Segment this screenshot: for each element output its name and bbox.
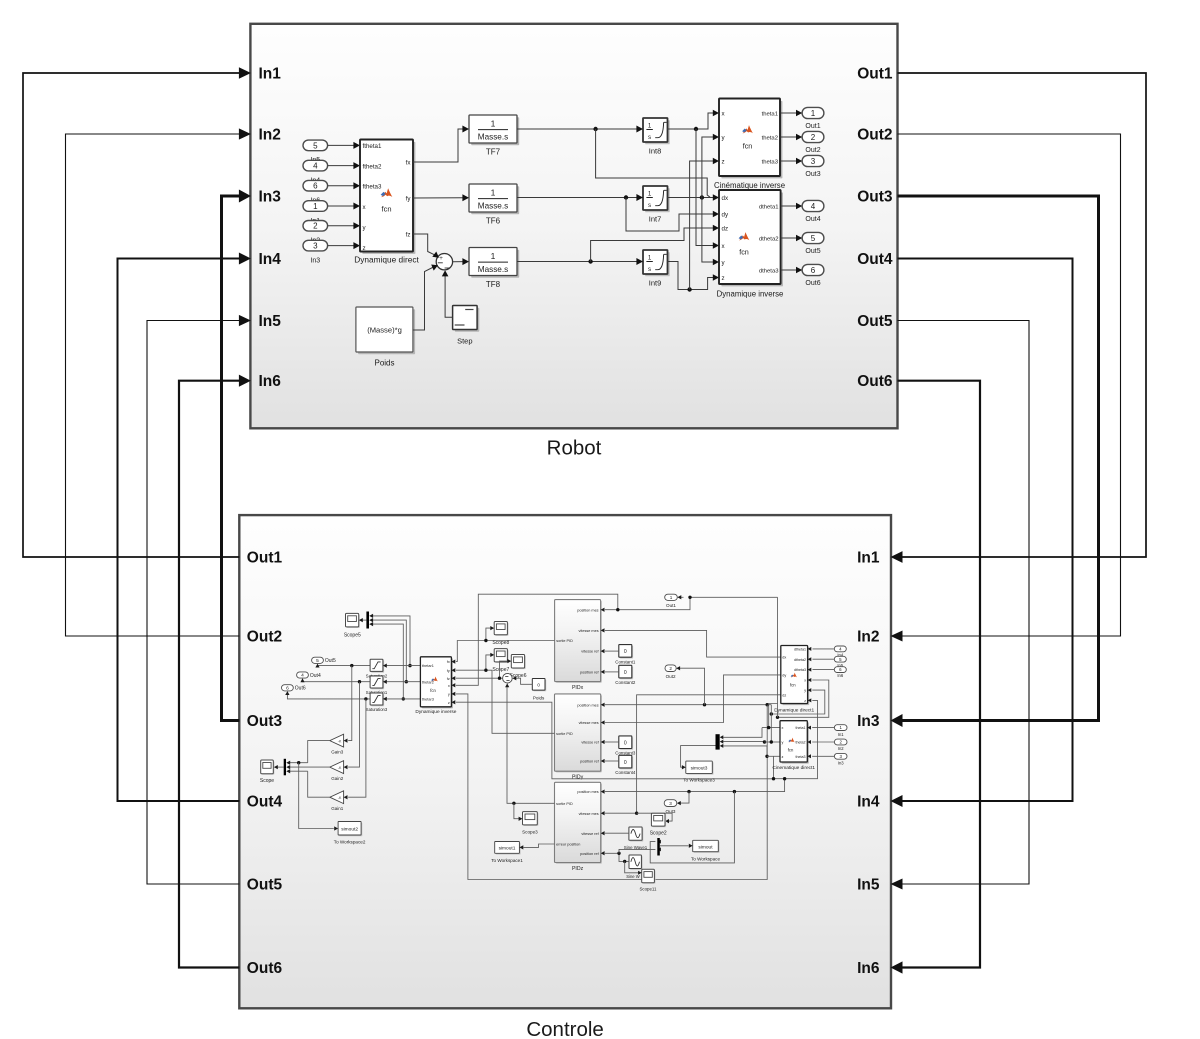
wire TF6 to Int7: [517, 197, 638, 199]
svg-text:fcn: fcn: [788, 748, 794, 753]
svg-text:To Workspace1: To Workspace1: [491, 858, 523, 863]
svg-text:In5: In5: [259, 313, 282, 330]
sine source block Sine Wave: [630, 856, 642, 870]
svg-text:In3: In3: [310, 257, 320, 264]
svg-text:position mes: position mes: [577, 703, 598, 707]
wire Robot Out4 to Controle In4: [898, 259, 1073, 802]
svg-text:Out2: Out2: [247, 629, 282, 646]
junction bottom-route tap: [766, 703, 769, 706]
junction Out3 tap: [687, 790, 690, 793]
svg-text:ftheta1: ftheta1: [363, 143, 382, 150]
wire to Out2: [678, 668, 704, 705]
wire inport 1 to Dynamique direct: [328, 205, 355, 207]
svg-text:dy: dy: [722, 211, 729, 218]
constant block Constant3: [620, 737, 633, 750]
wire TF8 to Int9: [517, 261, 638, 263]
wire Poids to sum S2: [516, 678, 533, 684]
svg-text:In6: In6: [857, 960, 880, 977]
svg-text:+: +: [439, 255, 443, 262]
svg-text:4: 4: [811, 202, 816, 211]
wire to simout2: [299, 763, 334, 829]
svg-text:Out4: Out4: [310, 673, 321, 679]
fcn block Dynamique direct1: [782, 647, 809, 705]
subsystem block PIDx: [556, 601, 602, 683]
svg-text:6: 6: [313, 182, 318, 191]
wire PIDz sortie to sum S2: [507, 686, 555, 804]
svg-text:6: 6: [811, 266, 816, 275]
svg-text:simout3: simout3: [691, 766, 708, 772]
svg-text:Out5: Out5: [857, 313, 893, 330]
svg-text:ftheta3: ftheta3: [363, 183, 382, 190]
svg-text:In2: In2: [857, 629, 879, 646]
svg-text:Dynamique inverse: Dynamique inverse: [415, 709, 456, 715]
svg-text:dtheta3: dtheta3: [759, 268, 779, 274]
svg-text:To Workspace: To Workspace: [691, 857, 720, 862]
wire Controle Out3 to Robot In3: [222, 196, 242, 721]
svg-text:1: 1: [648, 191, 652, 198]
wire fz to sum: [413, 234, 435, 255]
junction Scope3 tap: [512, 802, 515, 805]
wire Sine Wave to Scope11: [625, 861, 639, 872]
constant block Constant2: [620, 667, 633, 680]
wire Controle Out6 to Robot In6: [179, 381, 241, 968]
wire TF7 to Int8: [517, 128, 638, 130]
svg-text:Poids: Poids: [374, 359, 394, 368]
wire inport 2 to Cinematique direct1: [812, 741, 834, 743]
junction y riser tap: [770, 712, 773, 715]
wire Gain1 route into Mux2: [289, 770, 308, 772]
junction fz taps: [498, 677, 501, 680]
svg-text:Out5: Out5: [325, 658, 336, 664]
svg-text:Out6: Out6: [247, 960, 283, 977]
scope block Scope11: [643, 870, 656, 884]
svg-text:simout1: simout1: [499, 846, 516, 852]
wire to outport 5: [781, 237, 797, 239]
svg-text:theta3: theta3: [796, 755, 806, 759]
svg-text:ftheta2: ftheta2: [363, 163, 382, 170]
wire Controle Out1 to Robot In1: [23, 73, 241, 557]
wire fx to TF7: [413, 129, 464, 162]
svg-text:TF7: TF7: [486, 148, 501, 157]
wire y position to PIDy position mes: [605, 704, 771, 706]
svg-text:Out6: Out6: [295, 686, 306, 692]
wire Robot Out2 to Controle In2: [898, 134, 1121, 636]
svg-text:5: 5: [811, 234, 816, 243]
svg-text:In2: In2: [259, 127, 281, 144]
inport oval 2 (In2) Controle: [834, 739, 847, 745]
wire to outport 3: [781, 160, 797, 162]
wire TF8 branch to dz: [591, 228, 714, 262]
svg-text:Out6: Out6: [805, 280, 820, 287]
wire Controle Out5 to Robot In5: [147, 321, 241, 885]
svg-text:Gain3: Gain3: [331, 750, 344, 755]
wire Mux3 to simout: [660, 845, 689, 847]
wire TF6 branch to dy: [626, 198, 714, 232]
constant block Poids (Masse)*g: [358, 309, 415, 354]
wire dz tap to Scope2: [637, 813, 673, 821]
junction TF8 out: [588, 259, 592, 263]
wire Gain3 route into Mux2: [289, 762, 308, 764]
svg-text:dx: dx: [722, 195, 729, 202]
svg-text:Out3: Out3: [857, 189, 893, 206]
wire thetar3 tap to Mux1: [373, 624, 404, 699]
svg-text:Dynamique direct1: Dynamique direct1: [774, 708, 814, 714]
wire dz to PIDz vitesse mes: [605, 695, 781, 813]
svg-text:sortie PID: sortie PID: [556, 802, 573, 806]
svg-text:-K: -K: [338, 766, 342, 770]
outport oval 1 (Out1) Robot: [802, 107, 824, 118]
svg-text:dy: dy: [782, 674, 786, 678]
svg-text:Out6: Out6: [857, 373, 893, 390]
svg-text:4: 4: [313, 162, 318, 171]
wire Constant3 to PID: [605, 741, 619, 743]
inport oval 3 (In3) Robot: [303, 240, 328, 251]
wire TF7 branch to dx (Dynamique inverse): [596, 129, 710, 197]
scope block Scope8: [495, 623, 508, 636]
svg-text:fcn: fcn: [790, 683, 796, 688]
svg-text:Int7: Int7: [649, 215, 662, 224]
svg-text:theta3: theta3: [762, 159, 779, 165]
svg-text:Out3: Out3: [666, 809, 676, 814]
wire thetar2 to Saturation1: [387, 681, 421, 683]
junction Scope8 tap: [484, 639, 487, 642]
to-workspace block simout3: [687, 762, 714, 774]
constant block Constant1: [620, 646, 633, 659]
svg-text:In2: In2: [838, 746, 844, 751]
wire x position to Out1 / PIDx position mes / x input: [690, 596, 778, 598]
svg-text:Scope5: Scope5: [344, 632, 361, 638]
svg-text:PIDz: PIDz: [572, 866, 584, 872]
gain block Gain3: [330, 734, 344, 747]
scope block Scope2: [653, 814, 667, 827]
wire to Out3: [679, 792, 689, 804]
wire Poids to sum: [413, 267, 434, 330]
wire Robot Out5 to Controle In5: [898, 321, 1030, 885]
junction Int7 out: [700, 195, 704, 199]
junction Out1 tap: [688, 596, 691, 599]
svg-text:s: s: [648, 202, 651, 209]
wire PIDx sortie tap to Scope8: [486, 628, 491, 640]
mux Mux4 (simout3): [716, 734, 720, 749]
outport oval 2 (Out2) Controle: [665, 665, 676, 672]
svg-text:5: 5: [316, 658, 319, 664]
inport oval 6 (In6) Controle: [834, 667, 846, 673]
svg-text:In6: In6: [259, 373, 282, 390]
wire Int7 branch to y (Dynamique inverse): [702, 198, 714, 263]
outport oval 5 (Out5) Robot: [802, 232, 824, 243]
svg-text:Saturation3: Saturation3: [366, 707, 388, 712]
wire Int7 to dx (Dynamique inverse): [667, 197, 713, 199]
outport oval 3 (Out3) Controle: [664, 800, 677, 807]
svg-text:x: x: [782, 726, 784, 730]
svg-text:fcn: fcn: [381, 205, 391, 214]
wire Sine Wave to PIDz position ref: [605, 853, 629, 861]
svg-text:Constant3: Constant3: [615, 750, 636, 755]
wire inport 5 to Dynamique direct1: [813, 658, 835, 660]
svg-text:In4: In4: [259, 251, 282, 268]
svg-text:Out2: Out2: [857, 127, 892, 144]
svg-text:0: 0: [624, 670, 627, 676]
svg-text:fy: fy: [447, 669, 450, 673]
wire fy tap to Scope7: [486, 655, 491, 670]
svg-text:vitesse mes: vitesse mes: [579, 721, 599, 725]
svg-text:1: 1: [491, 119, 496, 129]
wire dx to PIDx vitesse mes: [605, 630, 781, 657]
svg-text:Dynamique direct: Dynamique direct: [354, 255, 419, 265]
wire mux to Scope5: [362, 619, 366, 621]
svg-text:1: 1: [670, 595, 673, 600]
junction simout2 tap: [297, 761, 300, 764]
svg-text:2: 2: [313, 222, 318, 231]
svg-text:-K: -K: [338, 740, 342, 744]
transfer-fcn block TF6: [471, 186, 519, 214]
wire Robot Out6 to Controle In6: [898, 381, 981, 968]
svg-text:z: z: [782, 755, 784, 759]
svg-text:Scope2: Scope2: [650, 831, 667, 837]
inport oval 2 (In2) Robot: [303, 221, 328, 232]
gain block Gain2: [330, 761, 344, 774]
saturation block Saturation1: [371, 677, 384, 689]
wire thetar3 to Saturation3: [387, 698, 421, 700]
svg-text:2: 2: [669, 666, 672, 671]
mux Mux3 (To Workspace): [657, 838, 660, 856]
svg-text:TF8: TF8: [486, 280, 501, 289]
wire thetar1 tap to Mux1: [373, 616, 410, 666]
svg-text:sortie PID: sortie PID: [556, 639, 573, 643]
wire thetar1 to Saturation2: [387, 665, 421, 667]
svg-text:Masse.s: Masse.s: [478, 265, 508, 274]
wire Saturation2 to Out5: [318, 664, 371, 667]
wire inport 3 to Dynamique direct: [328, 245, 355, 247]
junction PIDx posmes riser: [616, 608, 619, 611]
svg-text:dz: dz: [782, 693, 786, 697]
svg-text:x: x: [448, 684, 450, 688]
junction Out2 tap: [703, 703, 706, 706]
integrator block Int7: [645, 188, 670, 212]
scope block Scope7: [495, 650, 508, 663]
junction Scope2 tap (dz line): [635, 812, 638, 815]
wire to outport 4: [781, 205, 797, 207]
wire Controle Out4 to Robot In4: [118, 259, 242, 802]
svg-text:dtheta1: dtheta1: [759, 204, 779, 210]
wire z-position box route to Mux3: [650, 792, 734, 863]
svg-text:Masse.s: Masse.s: [478, 133, 508, 142]
svg-text:position mes: position mes: [577, 608, 598, 612]
wire z position to z input (Dynamique inverse): [456, 702, 774, 779]
fcn block Dynamique inverse (Controle): [422, 658, 453, 708]
svg-text:1: 1: [811, 109, 816, 118]
inport oval 4 (In4) Controle: [834, 646, 846, 652]
svg-text:In6: In6: [837, 673, 843, 678]
junction z run: [772, 777, 775, 780]
svg-text:vitesse ref: vitesse ref: [581, 741, 599, 745]
svg-text:x: x: [804, 679, 806, 683]
inport oval 6 (In6) Robot: [303, 180, 328, 191]
svg-text:1: 1: [491, 188, 496, 198]
svg-text:(Masse)*g: (Masse)*g: [367, 326, 402, 335]
svg-text:fcn: fcn: [743, 142, 753, 151]
wire x position to x input (Dynamique direct1): [778, 680, 829, 717]
svg-text:Masse.s: Masse.s: [478, 202, 508, 211]
svg-text:4: 4: [301, 673, 304, 679]
wire inport 4 to Dynamique direct: [328, 165, 355, 167]
to-workspace block simout: [694, 842, 720, 853]
svg-text:y: y: [804, 689, 806, 693]
svg-text:Out2: Out2: [666, 674, 676, 679]
sum junction S2 (Controle): [503, 673, 513, 683]
wire z tap to Mux4: [723, 746, 767, 756]
wire x position riser: [777, 597, 779, 717]
subsystem block PIDy: [556, 695, 602, 772]
svg-text:Out1: Out1: [805, 123, 820, 130]
svg-text:z: z: [804, 699, 806, 703]
svg-text:position ref: position ref: [580, 671, 600, 675]
svg-text:thetar3: thetar3: [422, 698, 434, 702]
constant block Poids (Controle): [534, 680, 547, 692]
svg-text:Scope: Scope: [260, 778, 274, 784]
svg-text:theta1: theta1: [796, 726, 806, 730]
wire PIDz sortie tap to Scope3: [514, 803, 519, 818]
wire Int7 branch to y (Cinematique inverse): [702, 137, 714, 198]
svg-text:theta2: theta2: [762, 135, 778, 141]
wire thetar2 to Gain2: [348, 682, 359, 767]
svg-text:fx: fx: [447, 660, 450, 664]
svg-text:y: y: [782, 741, 784, 745]
wire y position to y input (Dynamique direct1): [771, 690, 825, 714]
svg-text:s: s: [648, 134, 651, 141]
inport oval 4 (In4) Robot: [303, 160, 328, 171]
wire sum to TF8: [453, 261, 464, 263]
svg-text:z: z: [722, 158, 725, 165]
junction TF6 out: [624, 195, 628, 199]
svg-text:3: 3: [313, 242, 318, 251]
svg-text:Constant2: Constant2: [615, 680, 636, 685]
wire Robot Out3 to Controle In3: [898, 196, 1099, 721]
wire z position to PIDz position mes: [605, 779, 785, 792]
svg-text:Out2: Out2: [805, 147, 820, 154]
svg-text:In4: In4: [857, 794, 880, 811]
svg-text:In5: In5: [857, 877, 880, 894]
transfer-fcn block TF7: [471, 117, 519, 145]
svg-text:thetar2: thetar2: [422, 680, 434, 684]
outport oval 4 (Out4) Controle: [297, 672, 309, 678]
svg-text:3: 3: [811, 157, 816, 166]
svg-text:y: y: [448, 693, 450, 697]
fcn block Dynamique inverse U3: [721, 192, 783, 286]
subsystem Controle frame: [239, 515, 891, 1008]
wire Cinematique z out to z input (Dynamique direct1): [767, 755, 780, 757]
svg-text:0: 0: [624, 760, 627, 766]
svg-text:-K: -K: [338, 796, 342, 800]
inport oval 1 (In1) Controle: [834, 725, 847, 731]
svg-text:Out5: Out5: [805, 248, 820, 255]
svg-text:simout: simout: [698, 844, 713, 850]
svg-text:vitesse ref: vitesse ref: [581, 650, 599, 654]
svg-text:To Workspace3: To Workspace3: [683, 778, 715, 783]
svg-text:thetar1: thetar1: [422, 664, 434, 668]
svg-text:In1: In1: [857, 550, 880, 567]
svg-text:Out3: Out3: [805, 171, 820, 178]
wire Cinematique x out: [762, 727, 780, 729]
svg-text:dtheta3: dtheta3: [794, 668, 806, 672]
wire dy to PIDy vitesse mes: [605, 675, 781, 723]
svg-text:In3: In3: [259, 189, 282, 206]
svg-text:In1: In1: [838, 732, 844, 737]
wire Int9 branch to z (Cinematique inverse): [690, 161, 714, 290]
scope block Scope6: [512, 656, 525, 670]
wire fy to TF6: [413, 197, 464, 199]
svg-text:Constant4: Constant4: [615, 770, 636, 775]
outport oval 6 (Out6) Controle: [282, 685, 294, 691]
sine source block Sine Wave1: [630, 828, 643, 841]
wire PIDy sortie to fy: [456, 670, 555, 733]
wire sum S2 to fz: [456, 677, 503, 679]
inport oval 5 (In5) Robot: [303, 140, 328, 151]
svg-text:z: z: [363, 245, 366, 252]
junction Cin y out: [770, 740, 773, 743]
integrator block Int9: [645, 252, 670, 276]
outport oval 1 (Out1) Controle: [680, 596, 684, 598]
svg-text:z: z: [722, 275, 725, 282]
svg-text:Dynamique inverse: Dynamique inverse: [717, 290, 784, 299]
integrator block Int8: [645, 120, 670, 144]
svg-text:Out4: Out4: [857, 251, 893, 268]
to-workspace block simout2: [339, 823, 362, 837]
svg-text:erreur position: erreur position: [556, 843, 580, 847]
fcn block Dynamique direct U1: [362, 142, 415, 254]
svg-text:Controle: Controle: [526, 1018, 604, 1039]
fcn block Cinematique inverse U2: [721, 101, 782, 178]
svg-text:5: 5: [313, 141, 318, 150]
wire thetar3 to Gain1: [348, 699, 366, 797]
svg-text:theta2: theta2: [796, 741, 806, 745]
junction Scope7 tap: [484, 669, 487, 672]
junction TF7 out: [593, 127, 597, 131]
outport oval 4 (Out4) Robot: [802, 200, 824, 211]
svg-text:Scope3: Scope3: [522, 829, 538, 834]
scope block Scope3: [524, 813, 539, 826]
sum junction S1 (Robot): [436, 254, 452, 270]
wire Int8 to x (Cinematique inverse): [667, 113, 713, 129]
svg-text:Out3: Out3: [247, 713, 283, 730]
constant block Constant4: [620, 757, 633, 770]
svg-text:1: 1: [313, 202, 318, 211]
wire Gain1 out: [308, 771, 330, 797]
svg-text:Step: Step: [457, 337, 472, 346]
wire thetar1 to Gain3: [348, 666, 352, 741]
svg-text:Cinématique inverse: Cinématique inverse: [714, 181, 785, 190]
wire Gain3 out: [308, 741, 330, 763]
wire Mux2 to Scope: [277, 766, 283, 768]
svg-text:In1: In1: [259, 66, 282, 83]
svg-text:simout2: simout2: [341, 827, 358, 833]
svg-text:In3: In3: [838, 761, 844, 766]
wire Gain2 out to Mux2: [289, 766, 330, 768]
transfer-fcn block TF8: [471, 250, 519, 278]
scope block Scope: [262, 761, 275, 775]
junction box tap: [733, 790, 736, 793]
wire inport 6 to Dynamique direct1: [813, 669, 835, 671]
subsystem block PIDz: [556, 784, 602, 864]
wire PIDx sortie to fx: [456, 641, 555, 662]
wire Mux4 to simout3: [681, 746, 716, 768]
svg-text:position ref: position ref: [580, 760, 600, 764]
wire Saturation3 to Out6: [287, 693, 370, 699]
wire Controle Out2 to Robot In2: [66, 134, 242, 636]
svg-text:Gain2: Gain2: [331, 776, 344, 781]
svg-text:position mes: position mes: [577, 790, 598, 794]
svg-text:To Workspace2: To Workspace2: [334, 840, 366, 845]
